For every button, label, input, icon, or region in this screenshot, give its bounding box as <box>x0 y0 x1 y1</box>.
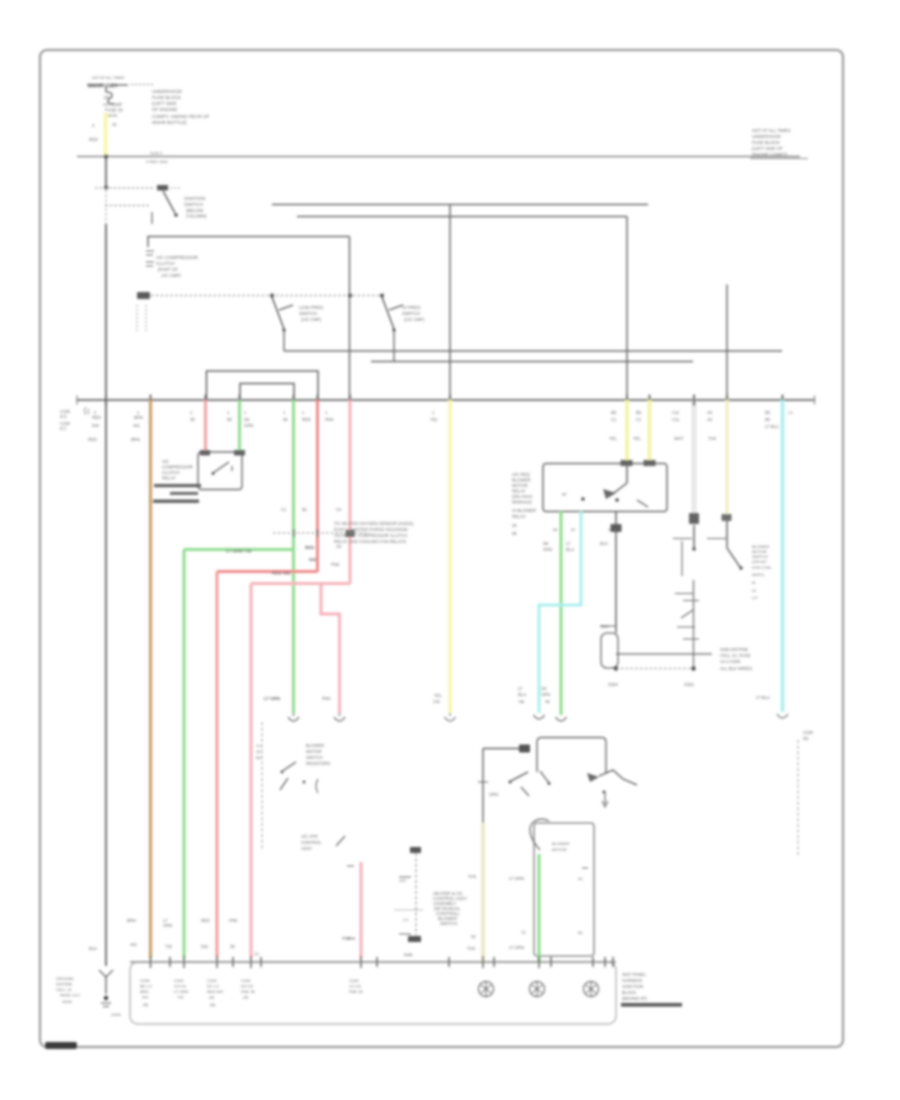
svg-text:(B): (B) <box>143 1002 149 1007</box>
svg-text:BLOWER: BLOWER <box>552 841 569 846</box>
wire cyan below relay jog <box>539 512 581 714</box>
svg-text:A/C COMPRESSOR: A/C COMPRESSOR <box>156 255 199 260</box>
label right side pins <box>609 410 793 441</box>
svg-text:1: 1 <box>325 410 328 415</box>
svg-text:CONTROL: CONTROL <box>301 840 322 845</box>
svg-text:HOT AT ALL TIMES: HOT AT ALL TIMES <box>752 128 791 133</box>
svg-text:RED: RED <box>201 918 210 923</box>
wire main vertical feed <box>105 157 107 187</box>
label mid control <box>301 834 322 851</box>
svg-text:LT GRN: LT GRN <box>174 989 188 994</box>
svg-text:C200: C200 <box>207 978 217 983</box>
svg-text:8 D: 8 D <box>60 414 67 419</box>
svg-text:RELAY: RELAY <box>512 514 526 519</box>
wire compressor loop top <box>148 237 350 248</box>
label LT GRN at connector <box>264 696 280 701</box>
svg-text:(LEFT SIDE OF: (LEFT SIDE OF <box>752 146 783 151</box>
svg-text:TAN: TAN <box>708 436 716 441</box>
label splices <box>608 682 694 687</box>
label relay underline bars <box>153 484 201 503</box>
svg-text:SWITCH: SWITCH <box>299 311 317 316</box>
svg-text:CLUTCH: CLUTCH <box>156 261 175 266</box>
label pink drop <box>347 936 356 941</box>
svg-text:1: 1 <box>432 410 435 415</box>
dashed control rail <box>151 295 382 297</box>
node rail dots <box>270 294 384 298</box>
svg-text:RESISTORS: RESISTORS <box>306 761 330 766</box>
connector pink inline <box>334 713 345 721</box>
svg-text:1: 1 <box>302 410 305 415</box>
label bus left C100 <box>60 409 101 442</box>
wire red drop <box>316 400 319 572</box>
wire tan lower <box>481 823 485 961</box>
svg-text:YEL: YEL <box>609 436 618 441</box>
svg-text:B6 1.0: B6 1.0 <box>140 984 152 989</box>
connector C1 dark <box>137 292 150 299</box>
svg-text:MAXIFUSE®: MAXIFUSE® <box>88 83 118 90</box>
svg-text:1: 1 <box>283 410 286 415</box>
label above fan switch assy <box>518 699 550 704</box>
svg-text:(BELOW: (BELOW <box>186 208 204 213</box>
svg-text:BLK: BLK <box>600 541 608 546</box>
connector bracket marks <box>85 407 90 415</box>
svg-text:52: 52 <box>471 934 476 939</box>
svg-text:YEL: YEL <box>434 693 443 698</box>
node splice right <box>691 666 695 670</box>
svg-text:LOW PRES: LOW PRES <box>299 305 323 310</box>
svg-text:A9: A9 <box>336 544 342 549</box>
svg-text:LO: LO <box>752 595 757 600</box>
svg-text:LT: LT <box>518 686 523 691</box>
svg-text:B5: B5 <box>765 410 771 415</box>
svg-text:RELAY AND COOLING FAN RELAYS: RELAY AND COOLING FAN RELAYS <box>334 539 406 544</box>
svg-text:COMPRESSOR: COMPRESSOR <box>162 465 193 470</box>
ignition switch arm <box>163 191 178 217</box>
wire splice horizontal <box>616 653 712 655</box>
svg-text:IGNITION: IGNITION <box>184 196 206 202</box>
svg-text:G200: G200 <box>111 1012 122 1017</box>
svg-text:72: 72 <box>521 930 526 935</box>
svg-text:ENGINE COMPT): ENGINE COMPT) <box>752 152 788 157</box>
svg-text:DK: DK <box>543 541 549 546</box>
svg-text:DK: DK <box>541 686 547 691</box>
blower motor scroll symbol <box>530 819 549 850</box>
fan selector column <box>395 847 424 957</box>
svg-text:C200: C200 <box>803 730 814 735</box>
svg-text:BRN: BRN <box>134 415 143 420</box>
svg-text:PNK 39: PNK 39 <box>241 989 256 994</box>
svg-text:LT BLU: LT BLU <box>756 695 770 700</box>
bus HOT feed line S100 <box>77 151 800 165</box>
svg-text:PNK: PNK <box>325 417 334 422</box>
svg-text:A/C HTR: A/C HTR <box>301 834 318 839</box>
dashed boundary right <box>798 730 814 855</box>
svg-text:RELAY: RELAY <box>162 476 176 481</box>
svg-text:FUSE BLOCK: FUSE BLOCK <box>152 95 182 100</box>
svg-text:YEL: YEL <box>430 417 439 422</box>
ground symbol splice 2 <box>530 982 545 997</box>
svg-text:S302: S302 <box>684 682 694 687</box>
svg-text:C2 0.8: C2 0.8 <box>349 984 362 989</box>
svg-text:(A/C CMP): (A/C CMP) <box>404 317 425 322</box>
connector green inline 2 <box>556 717 567 721</box>
svg-text:LT BLU: LT BLU <box>765 424 779 429</box>
wire pink horizontal <box>251 582 350 585</box>
svg-text:BRN: BRN <box>140 989 149 994</box>
wire black below relay <box>615 512 617 634</box>
svg-text:RED: RED <box>305 545 314 550</box>
label panel underline <box>621 1003 682 1007</box>
svg-text:DISTRIB: DISTRIB <box>56 982 72 987</box>
wire feed to bus <box>105 224 107 400</box>
label blower switch right <box>752 544 773 600</box>
svg-text:2 RED 1542: 2 RED 1542 <box>146 159 169 164</box>
label center text block <box>334 521 414 544</box>
heater control contacts <box>280 762 318 793</box>
wire mid line B <box>371 361 693 363</box>
svg-text:C1: C1 <box>611 417 617 422</box>
label above left ground <box>89 946 97 951</box>
svg-text:MOTOR: MOTOR <box>552 847 567 852</box>
wire brown BRN 441 <box>149 400 152 958</box>
svg-text:JUNCTION: JUNCTION <box>622 984 643 989</box>
svg-text:SWITCH: SWITCH <box>306 755 323 760</box>
svg-text:C1: C1 <box>281 507 287 512</box>
frame corner marker <box>45 1042 77 1049</box>
svg-text:BRN: BRN <box>127 918 136 923</box>
label A/C compressor clutch <box>156 255 199 278</box>
svg-text:60 A: 60 A <box>104 95 113 100</box>
wire jumper loop 2 <box>240 384 294 401</box>
wire green left drop <box>183 550 186 959</box>
svg-text:CLUTCH: CLUTCH <box>162 470 179 475</box>
svg-text:GRN: GRN <box>244 423 253 428</box>
svg-text:WHT: WHT <box>674 436 684 441</box>
svg-text:(A): (A) <box>243 995 249 1000</box>
label fan selector bottom <box>404 952 412 957</box>
svg-text:85: 85 <box>553 527 558 532</box>
svg-text:3: 3 <box>92 123 95 128</box>
ignition switch lower dashed rail <box>105 206 152 225</box>
svg-text:73: 73 <box>518 699 523 704</box>
svg-text:FUSE 32: FUSE 32 <box>105 108 123 113</box>
svg-text:RED: RED <box>92 415 101 420</box>
svg-text:GROUND: GROUND <box>56 976 74 981</box>
label inside motor box <box>552 841 569 852</box>
label brown wire <box>131 410 143 442</box>
label ground G200 <box>56 976 122 1017</box>
svg-text:WSHR BOTTLE): WSHR BOTTLE) <box>152 120 187 125</box>
svg-text:1: 1 <box>190 410 193 415</box>
svg-text:C11: C11 <box>672 417 680 422</box>
svg-text:RELAY: RELAY <box>512 489 526 494</box>
connector collar white <box>689 513 699 524</box>
label RED on wire <box>272 545 317 576</box>
svg-text:A/C CMP): A/C CMP) <box>161 273 181 278</box>
svg-text:C11: C11 <box>672 410 680 415</box>
wire pink to bottom <box>250 584 253 959</box>
svg-text:42: 42 <box>112 122 117 127</box>
label ground distribution <box>720 647 752 671</box>
svg-text:CELL 14: CELL 14 <box>56 987 72 992</box>
label switch 2 <box>402 305 425 322</box>
wire cyan right drop <box>781 400 785 712</box>
svg-text:MOTOR: MOTOR <box>306 749 322 754</box>
svg-text:441: 441 <box>142 995 149 1000</box>
connector panel C200 <box>130 962 616 1024</box>
svg-text:B8: B8 <box>611 410 617 415</box>
svg-text:UNDERHOOD: UNDERHOOD <box>752 134 781 139</box>
svg-text:RED: RED <box>302 417 311 422</box>
svg-text:C2: C2 <box>336 507 342 512</box>
svg-text:BLOWER: BLOWER <box>512 478 531 483</box>
svg-text:SWITCH: SWITCH <box>440 921 457 926</box>
wire long line lower <box>297 216 627 218</box>
svg-text:PNK: PNK <box>342 936 351 941</box>
relay A/C compressor clutch relay box <box>198 450 245 490</box>
svg-text:C200: C200 <box>349 978 359 983</box>
svg-text:39: 39 <box>230 944 235 949</box>
svg-text:RED: RED <box>89 137 98 142</box>
svg-text:(ON A/C: (ON A/C <box>752 559 767 564</box>
wire drop x627 <box>626 217 628 401</box>
label right HOT AT ALL TIMES block <box>750 128 808 159</box>
svg-text:542: 542 <box>309 557 317 562</box>
svg-text:441: 441 <box>133 423 141 428</box>
svg-text:(BEHIND I/P): (BEHIND I/P) <box>622 996 647 1001</box>
wire ORN (yellow highlight) fuse to splice <box>89 113 117 156</box>
svg-text:B5: B5 <box>765 417 771 422</box>
wire drop x450 <box>449 205 451 401</box>
svg-text:BLOWER: BLOWER <box>306 743 324 748</box>
node bus pin ticks <box>106 395 783 406</box>
svg-text:TO HEATED OXYGEN SENSOR (HO2S): TO HEATED OXYGEN SENSOR (HO2S), <box>334 521 414 526</box>
wire pink to relay <box>204 400 207 452</box>
fan switch contacts <box>509 770 638 807</box>
svg-text:ASSY): ASSY) <box>752 572 765 577</box>
svg-text:732: 732 <box>177 995 184 1000</box>
wire loop right drop <box>349 237 351 401</box>
svg-text:B1: B1 <box>578 930 584 935</box>
svg-text:542: 542 <box>201 944 209 949</box>
fusible link row <box>87 83 153 90</box>
label wires above rail row2 <box>130 936 351 956</box>
label heater control left <box>256 743 262 760</box>
label motor pins <box>509 876 584 950</box>
svg-text:OF ENGINE: OF ENGINE <box>152 107 177 112</box>
svg-text:FUSE BLOCK: FUSE BLOCK <box>752 140 780 145</box>
svg-text:VALVE, A/C COMPRESSOR CLUTCH: VALVE, A/C COMPRESSOR CLUTCH <box>334 533 407 538</box>
ground symbol splice 3 <box>584 982 599 997</box>
label A/C compressor relay <box>162 459 193 481</box>
svg-text:(2): (2) <box>254 952 259 956</box>
svg-text:A/C: A/C <box>162 459 169 464</box>
svg-text:(LEFT SIDE: (LEFT SIDE <box>152 101 177 106</box>
svg-text:RED 542: RED 542 <box>272 571 291 576</box>
svg-text:LT GRN 732: LT GRN 732 <box>226 549 252 554</box>
svg-text:1: 1 <box>227 410 230 415</box>
wire fan switch left feed <box>478 745 530 825</box>
svg-text:BLU: BLU <box>566 547 574 552</box>
svg-text:ALL BLK WIRES: ALL BLK WIRES <box>720 666 752 671</box>
svg-text:(PART OF: (PART OF <box>158 267 178 272</box>
label switch 1 <box>299 305 323 322</box>
svg-text:BLU: BLU <box>518 692 526 697</box>
wire tan drop <box>725 400 729 516</box>
svg-text:A1: A1 <box>578 876 584 881</box>
svg-text:72: 72 <box>545 699 550 704</box>
ground symbol splice 1 <box>479 982 494 997</box>
wire mid line A <box>284 350 782 352</box>
label LT GRN on wire <box>226 549 252 554</box>
connector cyan right inline <box>777 714 788 718</box>
svg-text:PNK: PNK <box>322 696 331 701</box>
svg-text:A6: A6 <box>707 410 713 415</box>
svg-text:BLK: BLK <box>404 952 412 957</box>
svg-text:C2: C2 <box>788 411 793 415</box>
svg-text:M: M <box>752 580 755 585</box>
svg-text:GRN: GRN <box>541 692 550 697</box>
svg-text:LT: LT <box>566 541 571 546</box>
wire drop x727 <box>726 285 728 401</box>
svg-text:GRN: GRN <box>163 923 172 928</box>
label fan feed <box>489 792 498 797</box>
wire green motor <box>538 854 541 962</box>
wire white drop <box>693 400 696 513</box>
svg-text:BRN: BRN <box>131 437 140 442</box>
svg-text:S100 2: S100 2 <box>150 151 162 156</box>
svg-text:MAXI: MAXI <box>107 113 117 118</box>
wire green below relay <box>560 512 563 716</box>
label heater control switch <box>306 743 330 766</box>
svg-text:D2 1.0: D2 1.0 <box>207 984 220 989</box>
wire red to bottom <box>216 572 219 959</box>
A/C compressor clutch terminals <box>146 251 154 266</box>
svg-text:(ON HVAC: (ON HVAC <box>512 494 533 499</box>
node bottom rail ticks <box>151 956 614 968</box>
svg-text:C1: C1 <box>256 743 262 748</box>
label pink wire <box>190 410 253 428</box>
svg-text:EVAP CANISTER PURGE SOLENOID: EVAP CANISTER PURGE SOLENOID <box>334 527 408 532</box>
wire left main ground drop <box>105 400 107 966</box>
svg-text:(B): (B) <box>210 1002 216 1007</box>
wire yellow relay feed 2 <box>648 400 652 460</box>
svg-text:TAN: TAN <box>468 874 476 879</box>
svg-text:LO: LO <box>403 918 408 922</box>
svg-text:SWITCH: SWITCH <box>402 311 420 316</box>
wire green to relay <box>238 400 241 452</box>
svg-text:UNDERHOOD: UNDERHOOD <box>152 89 183 94</box>
svg-text:732: 732 <box>165 944 173 949</box>
svg-text:YEL: YEL <box>633 436 642 441</box>
label PPL yellow end <box>433 693 443 704</box>
connector cyan inline <box>534 715 545 719</box>
svg-text:LT GRN: LT GRN <box>509 876 524 881</box>
svg-text:87: 87 <box>571 527 576 532</box>
wire green long drop <box>292 400 295 713</box>
connector collar pink <box>346 530 355 537</box>
svg-text:A6: A6 <box>707 417 713 422</box>
wire pink branch jog <box>321 584 340 714</box>
svg-text:HOT AT ALL TIMES: HOT AT ALL TIMES <box>92 76 125 80</box>
svg-text:(A/C CMP): (A/C CMP) <box>301 317 322 322</box>
svg-text:INST PANEL: INST PANEL <box>622 972 647 977</box>
svg-text:PNK 39: PNK 39 <box>349 989 364 994</box>
svg-text:86: 86 <box>512 531 517 536</box>
dashed connector rail mid <box>273 529 370 537</box>
svg-text:PAGE 14-2: PAGE 14-2 <box>60 993 81 998</box>
svg-text:441: 441 <box>130 942 138 947</box>
wire jumper loop 1 <box>207 371 319 400</box>
svg-text:HI PRES: HI PRES <box>402 305 420 310</box>
label left of green <box>281 507 308 512</box>
svg-text:PNK: PNK <box>229 918 238 923</box>
switch pressure 2 <box>382 297 403 362</box>
label black wire <box>600 541 609 629</box>
blower motor resistor box <box>534 823 594 956</box>
svg-text:RED: RED <box>88 437 97 442</box>
blower switch ladder <box>675 580 699 669</box>
svg-text:PNK: PNK <box>331 562 340 567</box>
svg-text:A/C CMP: A/C CMP <box>103 102 122 107</box>
svg-text:GND DISTRIB: GND DISTRIB <box>720 647 748 652</box>
svg-text:8 C: 8 C <box>60 426 67 431</box>
wire pink drop long <box>349 400 352 584</box>
svg-text:87: 87 <box>562 492 567 497</box>
svg-text:B1: B1 <box>302 507 308 512</box>
label tan lower <box>467 874 476 951</box>
svg-text:TAN: TAN <box>467 946 475 951</box>
resistor element symbol <box>600 626 618 668</box>
label small wires <box>283 410 439 422</box>
svg-text:66: 66 <box>283 417 288 422</box>
svg-text:DK: DK <box>244 417 250 422</box>
label heater AC control dark block <box>433 891 467 926</box>
svg-text:HI BLOWER: HI BLOWER <box>512 508 536 513</box>
svg-text:C1: C1 <box>636 417 642 422</box>
svg-text:G200: G200 <box>62 999 73 1004</box>
svg-text:OFF: OFF <box>399 879 407 883</box>
wire yellow long drop <box>448 400 452 713</box>
svg-text:1: 1 <box>244 410 247 415</box>
svg-text:14-2 G300: 14-2 G300 <box>720 659 741 664</box>
switch pressure 1 <box>272 297 293 351</box>
svg-text:(A): (A) <box>209 995 215 1000</box>
ignition switch dashed rail <box>95 185 180 191</box>
label cyan bottom <box>756 695 770 700</box>
svg-text:COMPT, AMONG REAR OF: COMPT, AMONG REAR OF <box>152 114 210 119</box>
ignition switch internal dashes <box>105 190 107 224</box>
svg-text:C200: C200 <box>174 978 184 983</box>
label ignition switch <box>184 196 207 219</box>
label pins below rail <box>140 978 152 1007</box>
svg-text:BLK: BLK <box>89 946 97 951</box>
blower switch pole 2 <box>707 521 743 570</box>
bus bottom connector rail <box>130 961 616 963</box>
svg-text:ASSY: ASSY <box>301 846 312 851</box>
svg-text:BLOCK: BLOCK <box>622 990 636 995</box>
svg-text:30: 30 <box>512 523 517 528</box>
svg-text:MOTOR: MOTOR <box>512 483 528 488</box>
connector yellow inline <box>445 713 456 721</box>
dashed splice rail <box>616 668 694 670</box>
blower switch pole 1 <box>673 525 696 576</box>
fan switch assembly housing <box>537 738 606 774</box>
svg-text:59: 59 <box>227 417 232 422</box>
wire green horizontal lead <box>184 548 294 551</box>
wire yellow relay feed 1 <box>625 400 629 460</box>
wire pink switch drop <box>360 862 363 958</box>
